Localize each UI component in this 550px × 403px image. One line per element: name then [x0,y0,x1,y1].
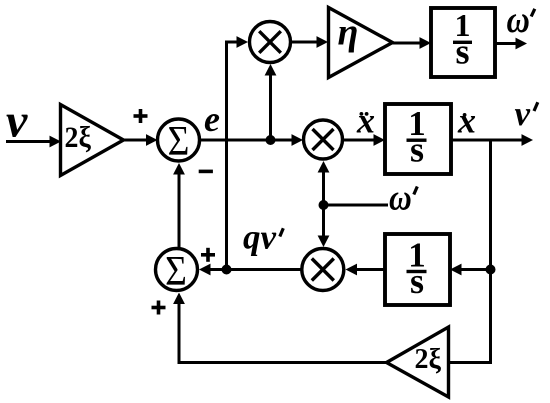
plus sign at summer S1 left input [134,109,148,123]
wire: A3 output along bottom and up into S2 bottom [173,293,386,363]
svg-text:e: e [204,99,220,139]
gain A3 (2xi, bottom feedback) [387,327,449,397]
plus sign at S2 bottom input [152,301,166,315]
wire: feedback branch into integrator I3 right side [450,264,491,276]
svg-text:ω: ω [389,177,412,218]
svg-text:v: v [6,95,28,148]
wire: A1 to summer S1 [124,134,158,146]
multiplier M1 (top) [250,22,291,63]
plus sign at S2 right input [201,248,215,262]
svg-text:Σ: Σ [168,117,190,165]
svg-text:Σ: Σ [165,247,187,295]
svg-text:2ξ: 2ξ [65,121,91,154]
integrator I1 (top 1/s) [431,7,495,77]
gain A2 (eta) [329,8,393,78]
summer S2 (sigma, bottom) [156,247,198,295]
wire: M3 output qv' into summer S2 right [199,264,302,276]
svg-text:x: x [356,101,375,141]
wire: feedback from v' line down right side to gain A3 [449,140,491,363]
minus sign at S1 bottom input [199,170,213,174]
svg-text:η: η [338,12,359,54]
node: dot on e line [266,135,276,145]
svg-text:x: x [457,101,476,141]
wire: omega' branch up into M2 bottom [318,161,330,205]
wire: I2 output v' line [451,134,533,146]
svg-text:2ξ: 2ξ [415,344,442,375]
wire: e line from S1 to multiplier M2 [200,134,303,146]
wire: I1 output omega' [495,38,527,50]
integrator I3 (bottom 1/s) [385,234,450,305]
wire: qv' branch up into multiplier M1 left [227,36,249,269]
node: dot on feedback line [486,265,496,275]
wire: omega' branch down into M3 top [318,205,330,247]
svg-text:ω: ω [507,0,530,41]
integrator I2 (middle 1/s) [385,104,451,174]
multiplier M3 (bottom) [302,249,344,291]
multiplier M2 (middle) [304,120,343,159]
svg-text:s: s [410,130,424,170]
node: dot on omega' branch [319,200,329,210]
label omega' (top output) [507,0,535,41]
label x-dot [457,101,476,141]
svg-text:qv: qv [243,218,277,257]
label v' (output) [515,94,538,133]
svg-text:v: v [515,94,531,133]
wire: omega' horizontal into node [324,204,389,207]
label x-ddot [356,101,375,141]
wire: M1 to gain A2 [291,36,329,48]
wire: A2 to integrator I1 [393,37,432,49]
node: dot on qv' line [222,265,232,275]
svg-text:s: s [410,261,424,301]
summer S1 (sigma) [158,117,200,165]
wire: I3 output into multiplier M3 right [346,264,386,276]
label qv' [243,218,283,257]
wire: e branch up into multiplier M1 bottom [265,64,277,140]
wire: input v into gain A1 [6,136,61,148]
wire: M2 to integrator I2 [343,134,386,146]
wire: S2 output up into S1 bottom (minus) [173,163,185,248]
label omega' (middle input) [389,177,417,218]
gain A1 (2xi) [61,105,124,176]
svg-text:s: s [455,32,469,72]
